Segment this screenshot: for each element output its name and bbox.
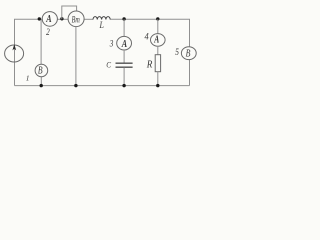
svg-text:В: В <box>186 48 191 59</box>
wire bottom <box>15 85 190 87</box>
junction dot top R branch <box>156 17 159 20</box>
junction dot bottom Wt <box>74 84 77 87</box>
wire wattmeter bottom lead <box>75 27 77 86</box>
svg-text:A: A <box>45 13 51 25</box>
junction dot top loop <box>60 17 63 20</box>
wire capacitor to bottom <box>123 68 125 86</box>
wire top middle segment A2 to Wt <box>57 18 68 20</box>
source arrow <box>12 44 16 50</box>
svg-text:Вт: Вт <box>72 14 80 25</box>
ammeter A2 circle <box>42 12 57 27</box>
ammeter A3 circle <box>117 36 132 50</box>
svg-text:C: C <box>106 60 111 70</box>
wire coil to top-right corner and right edge down to B5 <box>110 19 189 47</box>
junction dot bottom R <box>156 84 159 87</box>
svg-text:A: A <box>121 39 127 50</box>
svg-text:В: В <box>38 66 43 77</box>
inductor L coil <box>93 17 110 20</box>
svg-text:A: A <box>153 34 159 45</box>
svg-text:2: 2 <box>46 28 50 38</box>
junction dot top B1 <box>38 17 41 20</box>
wire Wt to coil <box>84 18 93 20</box>
svg-text:3: 3 <box>109 40 114 50</box>
svg-text:4: 4 <box>145 33 149 43</box>
svg-text:5: 5 <box>175 48 179 58</box>
junction dot bottom C <box>122 84 125 87</box>
resistor R body <box>155 55 160 72</box>
wattmeter Wt circle <box>68 11 84 27</box>
ammeter A4 circle <box>151 34 166 47</box>
svg-text:1: 1 <box>26 73 30 82</box>
voltmeter B5 circle <box>181 47 196 60</box>
wire A3 to capacitor <box>123 50 125 63</box>
wire A4 to resistor <box>157 46 159 55</box>
wire branch B1 lower <box>40 77 42 86</box>
wire resistor to bottom <box>157 72 159 86</box>
wire top left segment <box>15 19 43 45</box>
capacitor C top plate <box>116 62 133 64</box>
wire branch B1 upper <box>40 19 42 64</box>
svg-text:L: L <box>99 21 104 31</box>
wire left edge through source <box>14 44 16 86</box>
junction dot bottom B1 <box>40 84 43 87</box>
voltmeter B1 circle <box>35 64 48 76</box>
svg-text:R: R <box>146 60 153 71</box>
wire right edge below B5 <box>189 60 191 86</box>
wire A3 branch upper <box>123 19 125 36</box>
source G1 circle <box>5 45 24 62</box>
capacitor C bottom plate <box>116 66 133 68</box>
wire A4 branch upper <box>157 19 159 33</box>
junction dot top C branch <box>122 17 125 20</box>
wattmeter voltage loop <box>62 6 77 19</box>
